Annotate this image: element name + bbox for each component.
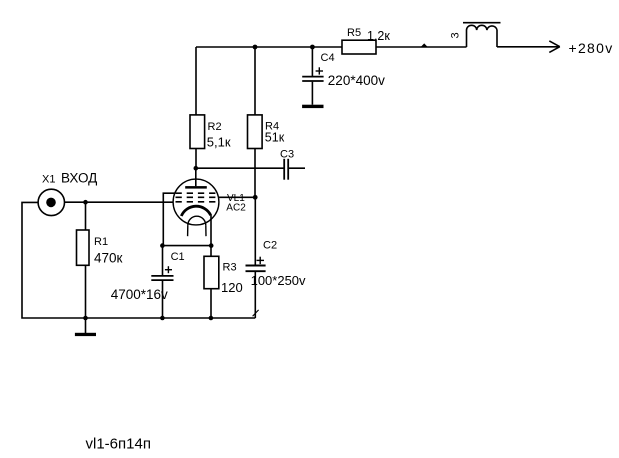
tube VL1 grid g1 xyxy=(176,201,218,203)
junction ground bus at R1 xyxy=(83,316,88,321)
resistor R3 xyxy=(204,246,219,318)
wire grid g1 input xyxy=(86,201,174,203)
svg-text:C4: C4 xyxy=(321,52,335,64)
svg-text:R3: R3 xyxy=(223,262,237,274)
capacitor C1 xyxy=(151,246,173,318)
svg-text:C2: C2 xyxy=(263,240,277,252)
junction input node xyxy=(83,200,88,205)
resistor R4 xyxy=(248,47,263,197)
tube VL1 heater xyxy=(188,216,206,236)
svg-text:120: 120 xyxy=(221,280,243,295)
svg-text:AC2: AC2 xyxy=(226,203,246,214)
svg-text:X1: X1 xyxy=(42,173,55,185)
junction rail at C4 xyxy=(310,45,315,50)
tube VL1 cathode xyxy=(181,206,210,216)
wire anode to C3 xyxy=(196,167,284,169)
ground at C4 xyxy=(302,105,323,108)
svg-text:C1: C1 xyxy=(171,251,185,263)
wire to output xyxy=(497,46,559,48)
tube VL1 anode xyxy=(185,168,207,188)
wire g2 screen xyxy=(219,196,256,198)
wire C2 corner tick xyxy=(253,310,259,316)
wire anode riser xyxy=(195,47,197,115)
wire X1 right to grid node xyxy=(65,201,86,203)
resistor R1 xyxy=(77,202,90,318)
polarity plus C2 xyxy=(257,257,265,264)
svg-text:R2: R2 xyxy=(208,121,222,133)
wire cathode lead xyxy=(210,215,212,246)
node +280v output arrow xyxy=(549,41,560,53)
resistor R5 xyxy=(342,40,467,54)
junction ground bus at C1 xyxy=(160,316,165,321)
svg-text:100*250v: 100*250v xyxy=(251,273,306,288)
junction cathode bus left xyxy=(160,243,165,248)
svg-text:220*400v: 220*400v xyxy=(328,73,385,88)
wire g3 to cathode bus xyxy=(163,193,174,245)
capacitor C4 xyxy=(302,47,323,105)
svg-text:vl1-6п14п: vl1-6п14п xyxy=(86,436,151,453)
svg-text:51к: 51к xyxy=(265,131,285,145)
junction cathode bus right xyxy=(209,243,214,248)
tube VL1 grid g2 xyxy=(176,196,218,198)
svg-text:470к: 470к xyxy=(94,251,123,266)
junction rail at R4 xyxy=(253,45,258,50)
polarity plus C1 xyxy=(165,266,172,273)
svg-text:ВХОД: ВХОД xyxy=(61,171,97,186)
connector X1 xyxy=(38,189,64,215)
svg-text:5,1к: 5,1к xyxy=(207,135,231,150)
ground xyxy=(75,318,96,336)
polarity plus C4 xyxy=(316,67,323,74)
junction anode node xyxy=(194,166,199,171)
capacitor C3 xyxy=(284,159,305,180)
resistor R2 xyxy=(190,115,205,168)
svg-text:4700*16v: 4700*16v xyxy=(111,287,168,302)
tube VL1 grid g3 xyxy=(176,192,218,194)
tube VL1 envelope xyxy=(173,179,219,225)
svg-text:+280v: +280v xyxy=(569,40,614,56)
svg-text:1,2к: 1,2к xyxy=(367,29,390,43)
junction ground bus at R3 xyxy=(209,316,214,321)
wire cathode bus xyxy=(162,245,211,247)
capacitor C2 xyxy=(246,197,266,318)
svg-text:C3: C3 xyxy=(280,148,294,160)
junction tap on B+ wire xyxy=(421,43,428,47)
wire X1 left to ground bus xyxy=(22,202,86,318)
svg-text:R1: R1 xyxy=(94,236,108,248)
svg-text:3: 3 xyxy=(449,32,461,38)
inductor L1 xyxy=(463,23,501,47)
wire ground bus xyxy=(86,317,256,319)
wire B+ rail xyxy=(196,46,342,48)
junction screen node xyxy=(253,195,258,200)
svg-text:R5: R5 xyxy=(347,27,361,39)
